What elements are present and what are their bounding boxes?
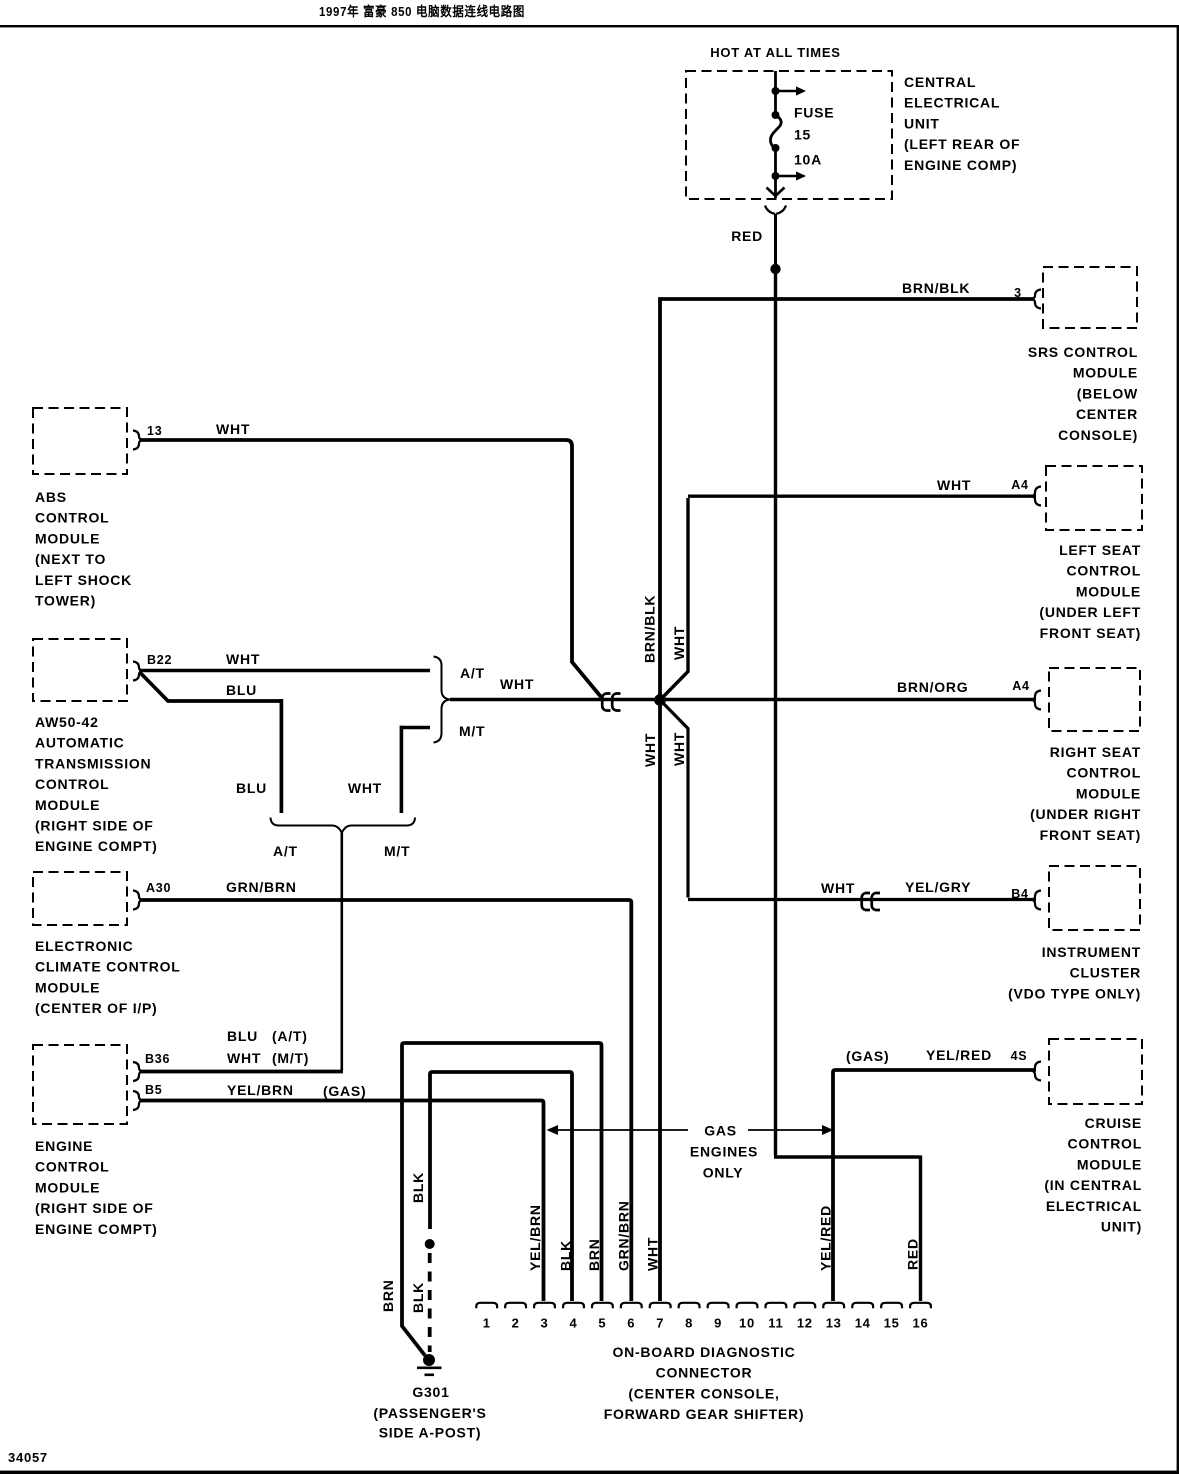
pin 13 label ABS [147,424,162,438]
label BLU (A/T) [227,1028,308,1044]
svg-text:1997年 富豪 850 电脑数据连线电路图: 1997年 富豪 850 电脑数据连线电路图 [319,4,525,19]
label BRN/BLK [902,280,970,296]
label M/T lower [384,843,410,859]
svg-text:MODULE: MODULE [35,530,100,546]
label G301 [412,1384,449,1400]
wire YEL/RED from pin 13 to cruise [833,1070,1036,1301]
brace A/T M/T selector [434,657,450,743]
svg-text:B5: B5 [145,1083,162,1097]
fuse FUSE 15 10A symbol [770,111,781,176]
svg-text:A4: A4 [1011,478,1028,492]
svg-text:(IN CENTRAL: (IN CENTRAL [1044,1177,1142,1193]
svg-text:BRN: BRN [380,1279,396,1312]
pin A30 label [146,881,171,895]
label 10A [794,152,822,168]
svg-text:BRN/BLK: BRN/BLK [642,595,658,663]
pin A4 label left seat [1011,478,1028,492]
wire RED main vertical and route to pin 16 [774,269,921,1301]
svg-text:CONTROL: CONTROL [35,1159,109,1175]
svg-text:WHT: WHT [671,626,687,660]
svg-text:ELECTRONIC: ELECTRONIC [35,938,134,954]
svg-text:MODULE: MODULE [35,1179,100,1195]
connector ABS module [133,431,141,450]
svg-text:12: 12 [797,1316,813,1331]
connector engine module B36 [133,1062,141,1081]
svg-text:A/T: A/T [460,665,485,681]
label YEL/RED vertical pin13 [818,1205,834,1271]
svg-text:YEL/BRN: YEL/BRN [227,1082,294,1098]
svg-text:CLIMATE CONTROL: CLIMATE CONTROL [35,959,181,975]
svg-text:(BELOW: (BELOW [1077,385,1138,401]
svg-text:(A/T): (A/T) [272,1028,308,1044]
AW50-42 module dashed box [33,639,127,701]
label GRN/BRN vertical pin6 [616,1200,632,1271]
SRS control module caption [1028,344,1138,443]
wire BRN/BLK from junction to SRS [658,299,1033,697]
svg-text:LEFT SEAT: LEFT SEAT [1059,542,1141,558]
label BLU vertical run [236,780,267,796]
svg-text:BLK: BLK [410,1282,426,1313]
label WHT instrument [821,880,855,896]
svg-text:CENTRAL: CENTRAL [904,74,976,90]
arrow gas engines right [748,1125,834,1135]
svg-text:3: 3 [541,1316,549,1331]
cruise control module dashed box [1049,1039,1142,1104]
svg-text:14: 14 [855,1316,871,1331]
ABS control module dashed box [33,408,127,474]
svg-text:(LEFT REAR OF: (LEFT REAR OF [904,136,1020,152]
svg-text:CLUSTER: CLUSTER [1070,965,1141,981]
svg-text:WHT: WHT [500,676,534,692]
label GRN/BRN [226,879,297,895]
svg-text:(UNDER LEFT: (UNDER LEFT [1039,604,1141,620]
svg-text:ENGINE COMP): ENGINE COMP) [904,157,1017,173]
svg-text:MODULE: MODULE [1076,785,1141,801]
svg-text:YEL/GRY: YEL/GRY [905,879,971,895]
svg-text:AUTOMATIC: AUTOMATIC [35,735,124,751]
wire WHT through inline connector to junction and BRN/ORG to right seat [450,698,1036,702]
node BLK splice [425,1239,435,1249]
right seat control module dashed box [1049,668,1140,731]
AW50-42 module caption [35,714,158,854]
svg-text:INSTRUMENT: INSTRUMENT [1042,944,1141,960]
label BLU b22 [226,682,257,698]
svg-text:BRN/BLK: BRN/BLK [902,280,970,296]
svg-text:(CENTER OF I/P): (CENTER OF I/P) [35,1000,157,1016]
label (GAS) cruise [846,1048,889,1064]
svg-text:MODULE: MODULE [1077,1156,1142,1172]
svg-text:TOWER): TOWER) [35,593,96,609]
svg-text:CONSOLE): CONSOLE) [1058,427,1138,443]
svg-text:CENTER: CENTER [1076,406,1138,422]
svg-text:MODULE: MODULE [35,979,100,995]
arrow gas engines left [547,1125,689,1135]
svg-text:5: 5 [598,1316,606,1331]
svg-text:BRN/ORG: BRN/ORG [897,679,968,695]
svg-text:(NEXT TO: (NEXT TO [35,551,106,567]
electronic climate control caption [35,938,181,1016]
central electrical unit caption [904,74,1020,173]
wire WHT from ABS [141,440,602,698]
label BRN vertical pin5 [586,1238,602,1271]
svg-text:WHT: WHT [226,651,260,667]
svg-text:2: 2 [512,1316,520,1331]
arrow tap right lower [776,171,807,180]
svg-text:34057: 34057 [8,1450,48,1465]
connector climate module [133,891,141,910]
node supply tap [772,87,780,95]
wire BRN pin 5 to ground [402,1043,602,1356]
label BLK upper vertical [410,1172,426,1203]
label RED [731,228,763,244]
svg-text:CONTROL: CONTROL [1067,563,1141,579]
label WHT left seat [937,477,971,493]
svg-text:ELECTRICAL: ELECTRICAL [1046,1198,1142,1214]
node central junction [654,694,666,706]
svg-text:UNIT: UNIT [904,115,940,131]
label RED vertical pin16 [905,1238,921,1270]
node RED junction [770,264,780,274]
wire WHT A/T from B22 [140,669,430,673]
engine control module caption [35,1138,158,1237]
svg-text:GRN/BRN: GRN/BRN [226,879,297,895]
svg-text:10: 10 [739,1316,755,1331]
svg-text:BLU: BLU [226,682,257,698]
wire BLK pin 4 branch [430,1072,572,1301]
pin B4 label [1011,887,1028,901]
svg-text:MODULE: MODULE [1076,583,1141,599]
connector engine module B5 [133,1091,141,1110]
svg-text:WHT: WHT [645,1237,661,1271]
cruise control module caption [1044,1115,1142,1235]
label WHT abs [216,421,250,437]
svg-text:16: 16 [913,1316,929,1331]
svg-text:ELECTRICAL: ELECTRICAL [904,95,1000,111]
svg-text:13: 13 [826,1316,842,1331]
svg-text:15: 15 [884,1316,900,1331]
svg-text:(RIGHT SIDE OF: (RIGHT SIDE OF [35,1200,154,1216]
wire BLK dashed to ground [428,1253,432,1352]
svg-text:BLU: BLU [236,780,267,796]
svg-text:ENGINES: ENGINES [690,1144,758,1160]
svg-text:CRUISE: CRUISE [1085,1115,1142,1131]
svg-text:RIGHT SEAT: RIGHT SEAT [1050,744,1141,760]
svg-text:A/T: A/T [273,843,298,859]
svg-text:ENGINE: ENGINE [35,1138,93,1154]
svg-text:(M/T): (M/T) [272,1050,309,1066]
pin 3 label SRS [1014,286,1022,300]
svg-text:HOT AT ALL TIMES: HOT AT ALL TIMES [710,45,840,60]
label WHT vertical pin7 [645,1237,661,1271]
label BLK vertical pin4 [558,1240,574,1271]
wire YEL/BRN from B5 to pin 3 [141,1101,544,1302]
svg-text:RED: RED [731,228,763,244]
label FUSE [794,105,834,121]
svg-text:(GAS): (GAS) [323,1083,366,1099]
svg-text:4: 4 [570,1316,578,1331]
wire fuse output down [774,176,777,198]
svg-text:B36: B36 [145,1052,170,1066]
connector below central electrical unit [765,206,786,214]
brace gas/manual merge [271,818,416,834]
svg-text:(UNDER RIGHT: (UNDER RIGHT [1030,806,1141,822]
OBD connector pin terminals 1-16 [476,1303,931,1308]
OBD connector caption [604,1344,805,1422]
svg-text:10A: 10A [794,152,822,168]
svg-text:WHT: WHT [937,477,971,493]
svg-text:UNIT): UNIT) [1101,1219,1142,1235]
svg-text:8: 8 [685,1316,693,1331]
top border rule [0,25,1179,27]
svg-text:YEL/RED: YEL/RED [818,1205,834,1271]
svg-text:CONNECTOR: CONNECTOR [656,1365,753,1381]
ABS control module caption [35,489,132,609]
label BRN/BLK vertical [642,595,658,663]
svg-text:RED: RED [905,1238,921,1270]
svg-text:AW50-42: AW50-42 [35,714,99,730]
svg-text:(CENTER CONSOLE,: (CENTER CONSOLE, [628,1385,779,1401]
svg-text:7: 7 [656,1316,664,1331]
label M/T upper [459,723,485,739]
pin B5 label [145,1083,162,1097]
svg-text:LEFT SHOCK: LEFT SHOCK [35,572,132,588]
wire GRN/BRN from A30 to pin 6 [141,900,631,1301]
svg-text:YEL/RED: YEL/RED [926,1047,992,1063]
ground G301 [417,1354,442,1375]
inline connector instrument [862,893,880,910]
svg-text:CONTROL: CONTROL [35,776,109,792]
label WHT vertical below right [671,732,687,766]
svg-text:WHT: WHT [821,880,855,896]
svg-text:(PASSENGER'S: (PASSENGER'S [373,1405,486,1421]
svg-text:4S: 4S [1011,1049,1028,1063]
svg-text:BRN: BRN [586,1238,602,1271]
connector SRS module [1033,290,1041,309]
svg-text:CONTROL: CONTROL [1067,765,1141,781]
label WHT b22 [226,651,260,667]
pin A4 label right seat [1012,679,1029,693]
label HOT AT ALL TIMES [710,45,840,60]
wire supply into fuse [774,71,777,114]
electronic climate control dashed box [33,872,127,925]
svg-text:(VDO TYPE ONLY): (VDO TYPE ONLY) [1008,985,1141,1001]
drawing number 34057 [8,1450,48,1465]
inline connector WHT [602,694,620,711]
svg-text:BLK: BLK [410,1172,426,1203]
svg-text:WHT: WHT [642,733,658,767]
svg-text:B22: B22 [147,653,172,667]
ground caption [373,1405,486,1441]
svg-text:CONTROL: CONTROL [1068,1136,1142,1152]
arrowhead out of unit [767,188,785,197]
svg-text:BLK: BLK [558,1240,574,1271]
label WHT (M/T) [227,1050,309,1066]
pin B22 label [147,653,172,667]
instrument cluster dashed box [1049,866,1140,930]
svg-text:WHT: WHT [348,780,382,796]
wire merge output to B36 [340,833,343,1070]
label GAS ENGINES ONLY [690,1123,758,1181]
bottom border rule [0,1471,1179,1474]
SRS control module dashed box [1043,267,1137,328]
svg-text:SIDE A-POST): SIDE A-POST) [379,1425,482,1441]
label A/T upper [460,665,485,681]
node fuse output tap [772,172,780,180]
svg-text:WHT: WHT [671,732,687,766]
svg-text:9: 9 [714,1316,722,1331]
svg-text:FORWARD GEAR SHIFTER): FORWARD GEAR SHIFTER) [604,1406,805,1422]
wire WHT junction down to pin 7 [658,703,662,1301]
label WHT vertical below left [642,733,658,767]
svg-text:M/T: M/T [384,843,410,859]
svg-text:WHT: WHT [227,1050,261,1066]
svg-text:GAS: GAS [704,1123,737,1139]
wire WHT junction to instrument cluster [663,703,1037,900]
svg-text:G301: G301 [412,1384,449,1400]
svg-text:ENGINE COMPT): ENGINE COMPT) [35,1221,158,1237]
svg-text:TRANSMISSION: TRANSMISSION [35,755,151,771]
svg-text:ENGINE COMPT): ENGINE COMPT) [35,838,158,854]
OBD connector pin numbers [483,1316,929,1331]
svg-text:WHT: WHT [216,421,250,437]
svg-text:ONLY: ONLY [703,1165,744,1181]
svg-text:BLU: BLU [227,1028,258,1044]
label YEL/BRN vertical pin3 [527,1204,543,1271]
svg-text:A4: A4 [1012,679,1029,693]
central electrical unit dashed box [686,71,892,199]
wire WHT from left seat corner to junction [663,496,1037,697]
svg-text:1: 1 [483,1316,491,1331]
svg-text:13: 13 [147,424,162,438]
left seat control module dashed box [1046,466,1142,530]
svg-text:MODULE: MODULE [35,797,100,813]
left seat control module caption [1039,542,1141,641]
label YEL/BRN [227,1082,294,1098]
svg-text:SRS CONTROL: SRS CONTROL [1028,344,1138,360]
engine control module dashed box [33,1045,127,1124]
connector left seat module [1033,487,1041,506]
label WHT vertical run [348,780,382,796]
svg-text:ABS: ABS [35,489,67,505]
label YEL/GRY [905,879,971,895]
pin B36 label [145,1052,170,1066]
svg-text:6: 6 [627,1316,635,1331]
pin 4S label [1011,1049,1028,1063]
svg-text:15: 15 [794,127,811,143]
label (GAS) engine [323,1083,366,1099]
connector right seat module [1033,691,1041,710]
label WHT vertical upper [671,626,687,660]
svg-text:3: 3 [1014,286,1022,300]
svg-text:YEL/BRN: YEL/BRN [527,1204,543,1271]
arrow tap right upper [776,86,807,95]
svg-text:M/T: M/T [459,723,485,739]
label WHT after brace [500,676,534,692]
svg-text:FRONT SEAT): FRONT SEAT) [1040,625,1141,641]
instrument cluster caption [1008,944,1141,1001]
label BRN/ORG [897,679,968,695]
label A/T lower [273,843,298,859]
wire B36 to merge brace [141,1070,343,1074]
svg-text:FUSE: FUSE [794,105,834,121]
connector cruise module [1033,1062,1041,1081]
svg-text:FRONT SEAT): FRONT SEAT) [1040,827,1141,843]
right border rule [1177,25,1179,1474]
svg-text:ON-BOARD DIAGNOSTIC: ON-BOARD DIAGNOSTIC [612,1344,795,1360]
label YEL/RED [926,1047,992,1063]
svg-text:(GAS): (GAS) [846,1048,889,1064]
wire WHT M/T branch [401,726,430,813]
svg-text:CONTROL: CONTROL [35,510,109,526]
svg-text:GRN/BRN: GRN/BRN [616,1200,632,1271]
label 15 [794,127,811,143]
svg-text:11: 11 [768,1316,783,1331]
wire BLU from B22 [140,673,281,814]
connector instrument cluster [1033,891,1041,910]
svg-text:(RIGHT SIDE OF: (RIGHT SIDE OF [35,818,154,834]
right seat control module caption [1030,744,1141,843]
label BLK lower vertical [410,1282,426,1313]
svg-text:MODULE: MODULE [1073,365,1138,381]
svg-text:B4: B4 [1011,887,1028,901]
label BRN ground vertical [380,1279,396,1312]
wire RED from fuse [774,214,777,264]
connector AW50-42 module [133,662,141,681]
diagram title [319,4,525,19]
svg-text:A30: A30 [146,881,171,895]
